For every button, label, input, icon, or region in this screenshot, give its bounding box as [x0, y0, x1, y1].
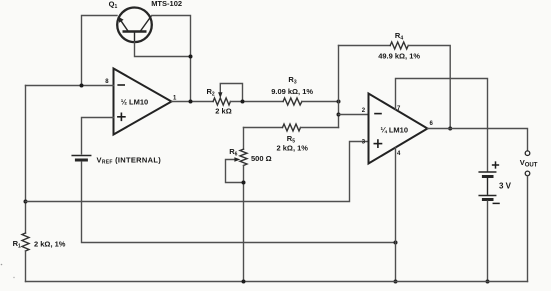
wire Vref bottom to pin4 rail: [82, 162, 396, 243]
R6 wiper arrow: [234, 157, 240, 161]
svg-text:R6: R6: [229, 147, 237, 158]
paper speck: [1, 264, 3, 266]
junction battery/rail: [486, 280, 490, 284]
left rail upper segment: [25, 86, 27, 234]
R6 wiper arm: [226, 160, 244, 183]
paper speck: [13, 277, 14, 278]
resistor R4 (zigzag): [390, 42, 408, 49]
battery 3V: [479, 172, 496, 200]
wire U1 output row: [172, 101, 214, 103]
R6 top wire: [243, 128, 245, 150]
wire R2 to R3: [230, 101, 283, 103]
battery plus label: [493, 162, 499, 168]
svg-text:MTS-102: MTS-102: [151, 0, 182, 8]
junction emitter/pin8: [80, 84, 84, 88]
resistor R3 (zigzag): [283, 98, 302, 105]
wire U2 output row: [428, 129, 528, 151]
junction R6/rail: [242, 280, 246, 284]
svg-text:R3: R3: [288, 75, 296, 86]
junction R6 bottom/wiper: [242, 181, 246, 185]
op-amp U2 (1/4 LM10): [369, 94, 428, 164]
transistor Q1: [117, 8, 152, 43]
R2 wiper loop: [220, 84, 242, 102]
junction collector/output: [189, 100, 193, 104]
svg-text:R2: R2: [207, 87, 215, 98]
svg-text:8: 8: [105, 79, 109, 85]
svg-text:500 Ω: 500 Ω: [251, 154, 272, 163]
svg-text:¼ LM10: ¼ LM10: [381, 126, 409, 135]
battery VREF (internal): [72, 156, 91, 161]
U2 minus sign: [375, 113, 381, 115]
svg-text:7: 7: [397, 106, 401, 112]
wire emitter top-left L (Q1 emitter to pin8 node): [82, 16, 118, 86]
U2 plus sign: [374, 140, 381, 147]
junction pin4/rail: [394, 280, 398, 284]
svg-text:VOUT: VOUT: [520, 158, 538, 169]
wire Vout lower to rail: [527, 176, 529, 282]
svg-text:49.9 kΩ, 1%: 49.9 kΩ, 1%: [378, 51, 420, 60]
svg-text:2 kΩ: 2 kΩ: [215, 106, 231, 115]
feedback vertical node wire: [338, 46, 340, 128]
svg-text:2: 2: [362, 108, 366, 114]
junction base-collector: [189, 55, 193, 59]
junction Vref/pin4: [394, 241, 398, 245]
junction left rail / pin3 wire: [24, 200, 28, 204]
wire pin2: [339, 114, 369, 116]
svg-text:9.09 kΩ, 1%: 9.09 kΩ, 1%: [271, 87, 313, 96]
wire pin4 down to rail: [395, 148, 397, 282]
svg-text:R1: R1: [13, 239, 21, 250]
wire R5 to feedback vertical: [301, 127, 339, 129]
Vout upper terminal: [525, 151, 530, 156]
wire pin8 (inverting input row): [26, 85, 114, 87]
svg-text:Q1: Q1: [109, 0, 118, 10]
R2 wiper arrow: [218, 92, 222, 98]
svg-text:6: 6: [430, 121, 434, 127]
wire R4 right to output: [408, 46, 450, 129]
resistor R4 row left wire: [339, 45, 391, 47]
svg-text:R4: R4: [395, 31, 403, 42]
svg-text:3: 3: [362, 139, 366, 145]
svg-text:1: 1: [173, 96, 177, 102]
bottom ground rail: [26, 281, 528, 283]
resistor R2 (zigzag): [213, 98, 230, 105]
svg-text:3 V: 3 V: [499, 181, 512, 190]
U1 plus sign: [118, 113, 125, 120]
svg-text:½ LM10: ½ LM10: [121, 98, 149, 107]
wire pin3 long run: [26, 142, 369, 202]
wire battery bottom to rail: [487, 201, 489, 282]
svg-text:2 kΩ, 1%: 2 kΩ, 1%: [34, 239, 66, 248]
junction pin2 node: [337, 113, 341, 117]
junction R3/feedback: [337, 100, 341, 104]
U1 minus sign: [118, 84, 124, 86]
wire noninverting input to Vref: [82, 118, 114, 154]
resistor R6 (vertical zigzag): [240, 149, 247, 165]
Vout lower terminal: [525, 171, 530, 176]
svg-text:2 kΩ, 1%: 2 kΩ, 1%: [277, 143, 309, 152]
svg-text:VREF (INTERNAL): VREF (INTERNAL): [97, 155, 162, 165]
wire R3 to feedback node: [302, 101, 339, 103]
left rail lower segment: [25, 251, 27, 282]
wire pin7 supply to battery: [396, 79, 488, 172]
op-amp U1 (1/2 LM10): [114, 69, 172, 135]
svg-text:4: 4: [397, 151, 401, 157]
wire R5 row: [244, 127, 283, 129]
resistor R5 (zigzag): [283, 124, 301, 131]
junction R4/output: [448, 127, 452, 131]
wire collector (Q1 to output node): [152, 16, 191, 102]
wire base (Q1 base to collector line): [135, 42, 191, 57]
junction R2 loop/output row: [241, 100, 245, 104]
resistor R1 (vertical zigzag): [22, 233, 29, 251]
battery minus label: [493, 202, 499, 204]
R6 bottom vertical to rail: [243, 166, 245, 282]
